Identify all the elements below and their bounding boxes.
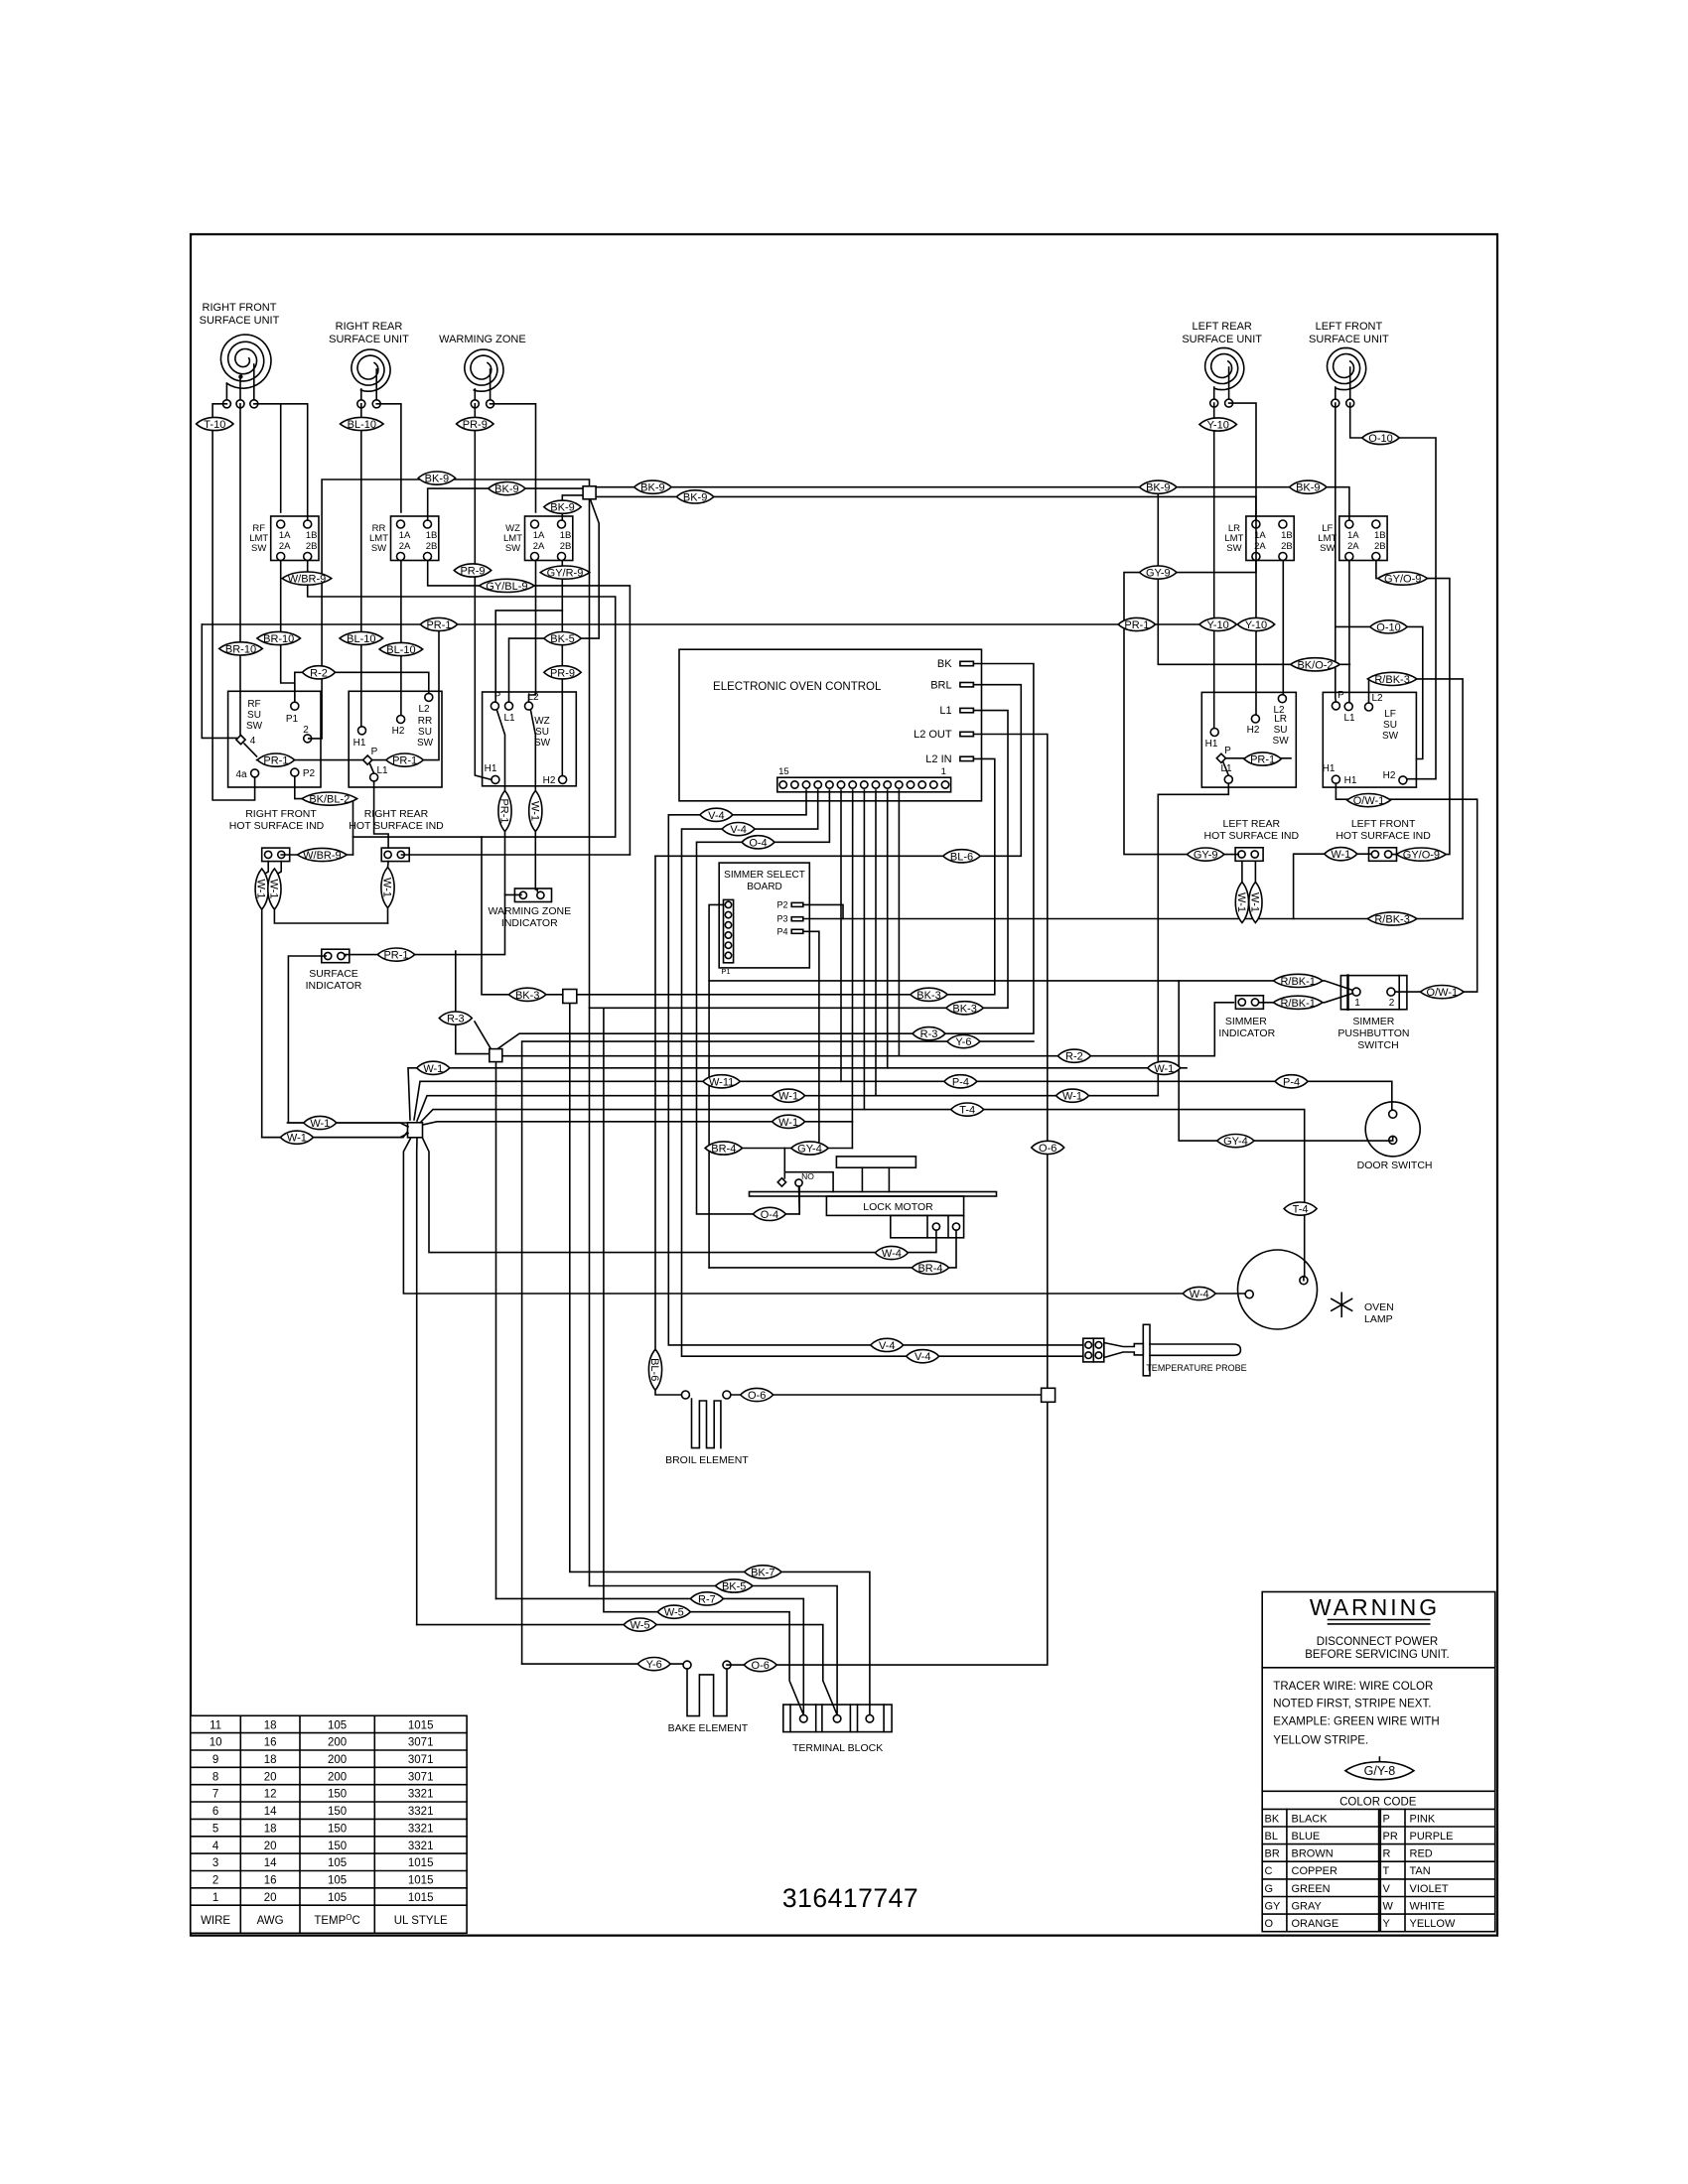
svg-text:SIMMER: SIMMER xyxy=(1225,1016,1267,1027)
label oval W-1 xyxy=(1235,883,1249,923)
limit switch LR LMT SW xyxy=(1246,516,1294,561)
wire pin7 xyxy=(875,790,877,1096)
svg-text:PINK: PINK xyxy=(1410,1813,1436,1825)
wire PR-1 bus drop to switch 4 xyxy=(202,624,236,738)
svg-text:1015: 1015 xyxy=(408,1857,434,1869)
wire LF coil right to O-10 run xyxy=(1350,403,1436,779)
label oval R/BK-1 xyxy=(1273,974,1323,988)
svg-text:105: 105 xyxy=(328,1857,347,1869)
svg-text:2B: 2B xyxy=(306,541,318,552)
svg-text:W-1: W-1 xyxy=(528,801,540,821)
svg-text:NO: NO xyxy=(801,1171,814,1181)
svg-text:R/BK-1: R/BK-1 xyxy=(1280,976,1315,988)
wire RF conn right down W-1 xyxy=(274,862,387,923)
svg-text:BLACK: BLACK xyxy=(1292,1813,1329,1825)
label oval P-4 xyxy=(944,1075,977,1089)
svg-text:BK-5: BK-5 xyxy=(722,1581,746,1593)
svg-text:COLOR CODE: COLOR CODE xyxy=(1339,1797,1417,1809)
svg-text:GY-9: GY-9 xyxy=(1146,568,1171,580)
label oval W-1 xyxy=(773,1089,805,1103)
svg-text:PR-1: PR-1 xyxy=(263,755,288,767)
wire WZ indicator left tap xyxy=(505,893,521,895)
wire pin12 V-4 xyxy=(682,790,1083,1356)
label oval PR-1 xyxy=(377,948,414,962)
svg-text:GY-9: GY-9 xyxy=(1194,850,1218,862)
wire BK-3 second line xyxy=(590,711,1009,1009)
svg-text:H2: H2 xyxy=(1247,725,1260,736)
wire LR conn W-1 ovals down2 xyxy=(1254,861,1256,918)
label oval BK-7 xyxy=(745,1566,781,1579)
svg-text:SW: SW xyxy=(1382,731,1399,742)
svg-text:W-11: W-11 xyxy=(709,1076,734,1088)
svg-text:3071: 3071 xyxy=(408,1754,434,1766)
svg-text:BLUE: BLUE xyxy=(1292,1831,1321,1843)
label oval BK-9 xyxy=(676,490,713,504)
label oval GY-4 xyxy=(1217,1135,1254,1149)
label oval W-1 xyxy=(280,1131,313,1145)
svg-text:2A: 2A xyxy=(279,541,291,552)
svg-text:W-1: W-1 xyxy=(1331,849,1350,861)
svg-text:H2: H2 xyxy=(1383,770,1396,781)
svg-text:105: 105 xyxy=(328,1892,347,1904)
svg-text:7: 7 xyxy=(212,1789,218,1801)
wire RR LMT 2B GY/BL-9 chain xyxy=(428,561,631,856)
label oval GY-9 xyxy=(1188,848,1224,862)
svg-text:316417747: 316417747 xyxy=(782,1883,918,1913)
svg-text:2B: 2B xyxy=(1281,541,1293,552)
wire RF coil left to T-10 run xyxy=(212,404,255,800)
label oval BL-10 xyxy=(341,417,384,431)
svg-text:200: 200 xyxy=(328,1754,347,1766)
svg-text:3071: 3071 xyxy=(408,1737,434,1749)
svg-text:LF: LF xyxy=(1384,709,1396,720)
svg-text:20: 20 xyxy=(264,1841,277,1852)
wire R/BK-3 from L2 xyxy=(1369,679,1464,919)
svg-text:H1: H1 xyxy=(485,763,497,774)
board SIMMER SELECT BOARD xyxy=(719,863,809,968)
svg-text:O/W-1: O/W-1 xyxy=(1353,795,1385,807)
wire BK/O-2 run to L1 xyxy=(1158,487,1349,665)
svg-text:V-4: V-4 xyxy=(879,1340,896,1352)
wire lamp W-4 feed xyxy=(1244,1293,1246,1296)
svg-text:R/BK-3: R/BK-3 xyxy=(1374,674,1409,686)
svg-text:14: 14 xyxy=(264,1857,277,1869)
svg-text:BK-5: BK-5 xyxy=(550,633,574,645)
label oval O-4 xyxy=(753,1207,785,1221)
wire P3 long R/BK-3 xyxy=(803,918,1463,920)
svg-text:O-6: O-6 xyxy=(1039,1143,1056,1155)
svg-text:1: 1 xyxy=(212,1892,218,1904)
svg-text:SW: SW xyxy=(1273,736,1290,747)
label oval O-4 xyxy=(742,836,774,850)
label oval Y-6 xyxy=(637,1658,670,1672)
label oval BK-9 xyxy=(1140,480,1177,494)
svg-text:8: 8 xyxy=(212,1771,218,1783)
svg-text:T: T xyxy=(1383,1865,1390,1877)
svg-text:LEFT FRONT: LEFT FRONT xyxy=(1351,818,1416,830)
wire W-1 to LF conn xyxy=(1294,854,1370,918)
svg-text:1015: 1015 xyxy=(408,1892,434,1904)
wire LF LMT 2A to L1 xyxy=(1348,561,1350,703)
svg-text:P2: P2 xyxy=(303,768,316,779)
svg-text:4: 4 xyxy=(250,736,256,747)
label oval W/BR-9 xyxy=(282,572,332,586)
svg-text:YELLOW STRIPE.: YELLOW STRIPE. xyxy=(1273,1735,1368,1747)
svg-text:PR-1: PR-1 xyxy=(1250,754,1275,766)
svg-text:V: V xyxy=(1383,1883,1391,1895)
wire R/BK-1 line xyxy=(709,981,1352,991)
svg-text:SW: SW xyxy=(1320,543,1335,554)
svg-text:1B: 1B xyxy=(1374,530,1386,541)
wire PR-1 switch bus xyxy=(257,759,364,761)
wire LF LMT 2B to GY/O-9 run xyxy=(1376,561,1450,855)
label oval GY/O-9 xyxy=(1397,848,1447,862)
wire L2 OUT down xyxy=(973,735,1047,1389)
label oval GY-9 xyxy=(1140,566,1177,580)
label oval T-4 xyxy=(951,1103,984,1117)
limit switch RR LMT SW xyxy=(391,516,439,561)
wire RF LMT 2B W/BR-9 chain xyxy=(308,561,616,856)
svg-text:10: 10 xyxy=(210,1737,222,1749)
svg-text:P: P xyxy=(1224,746,1231,756)
label oval T-10 xyxy=(197,417,233,431)
label oval R-2 xyxy=(303,666,336,680)
svg-text:PR-9: PR-9 xyxy=(460,566,485,578)
svg-text:2B: 2B xyxy=(426,541,438,552)
label oval O/W-1 xyxy=(1421,986,1465,1000)
svg-text:LAMP: LAMP xyxy=(1364,1313,1393,1325)
switch lock motor NO contact xyxy=(785,1172,834,1192)
svg-text:P4: P4 xyxy=(776,926,787,936)
wire BL-6 down to broil xyxy=(655,856,681,1395)
svg-text:EXAMPLE: GREEN WIRE WITH: EXAMPLE: GREEN WIRE WITH xyxy=(1273,1716,1439,1728)
svg-text:150: 150 xyxy=(328,1823,347,1835)
wire fan W-1 mid xyxy=(417,1096,1158,1121)
svg-text:PUSHBUTTON: PUSHBUTTON xyxy=(1337,1027,1409,1039)
wire L2 OUT below junction xyxy=(727,1402,1048,1665)
svg-text:SU: SU xyxy=(247,710,261,721)
svg-text:H2: H2 xyxy=(543,775,556,786)
svg-text:105: 105 xyxy=(328,1719,347,1731)
svg-text:W-1: W-1 xyxy=(255,880,267,899)
svg-text:W/BR-9: W/BR-9 xyxy=(288,574,327,586)
wire surface ind left down xyxy=(288,956,407,1123)
svg-text:SIMMER SELECT: SIMMER SELECT xyxy=(724,870,805,881)
svg-text:SIMMER: SIMMER xyxy=(1352,1016,1394,1027)
svg-text:3071: 3071 xyxy=(408,1771,434,1783)
label oval BR-4 xyxy=(705,1142,742,1156)
label oval R-3 xyxy=(439,1012,472,1025)
label oval GY/BL-9 xyxy=(480,579,535,593)
svg-text:P1: P1 xyxy=(721,967,730,976)
svg-text:PR-9: PR-9 xyxy=(550,667,575,679)
svg-text:O-4: O-4 xyxy=(749,837,767,849)
label oval BK-9 xyxy=(1290,480,1327,494)
junction BK-3 node xyxy=(563,990,577,1004)
wire O/W-1 from LF H1 xyxy=(1336,783,1477,992)
wire WZ LMT 2A to L2 xyxy=(529,561,536,703)
svg-text:RF: RF xyxy=(247,699,260,710)
wire GY-4 riser xyxy=(851,1122,853,1149)
svg-text:P: P xyxy=(1383,1813,1390,1825)
svg-text:W-1: W-1 xyxy=(267,880,279,899)
svg-text:R/BK-1: R/BK-1 xyxy=(1280,998,1315,1010)
svg-text:BROWN: BROWN xyxy=(1292,1848,1334,1860)
label oval O-6 xyxy=(741,1388,774,1402)
label oval O-10 xyxy=(1362,431,1399,445)
label oval W-5 xyxy=(624,1618,656,1632)
svg-text:SURFACE: SURFACE xyxy=(309,968,358,980)
svg-text:W-1: W-1 xyxy=(1062,1091,1082,1103)
svg-text:BK-9: BK-9 xyxy=(1146,482,1170,494)
svg-text:14: 14 xyxy=(264,1806,277,1818)
svg-text:11: 11 xyxy=(210,1719,221,1731)
svg-text:BK/O-2: BK/O-2 xyxy=(1297,659,1333,671)
svg-text:C: C xyxy=(1265,1865,1273,1877)
label oval G/Y-8 example xyxy=(1378,1757,1380,1762)
label oval BL-6 xyxy=(648,1349,662,1390)
label oval W-1 xyxy=(773,1115,805,1129)
svg-text:TRACER WIRE: WIRE COLOR: TRACER WIRE: WIRE COLOR xyxy=(1273,1681,1433,1693)
label oval GY/O-9 xyxy=(1378,572,1428,586)
svg-text:P-4: P-4 xyxy=(1283,1076,1300,1088)
label oval O/W-1 xyxy=(1347,794,1391,808)
svg-text:SWITCH: SWITCH xyxy=(1357,1039,1398,1051)
svg-text:BK: BK xyxy=(937,658,952,670)
svg-text:R-3: R-3 xyxy=(920,1028,938,1040)
svg-text:2B: 2B xyxy=(560,541,572,552)
wire BK-9 bus right xyxy=(596,487,1349,520)
svg-text:BL-6: BL-6 xyxy=(950,851,973,863)
svg-text:150: 150 xyxy=(328,1841,347,1852)
svg-text:P3: P3 xyxy=(776,914,787,924)
svg-text:V-4: V-4 xyxy=(730,824,747,836)
label oval BK-3 xyxy=(946,1002,983,1016)
svg-text:105: 105 xyxy=(328,1875,347,1887)
label oval W/BR-9 xyxy=(298,848,348,862)
svg-text:150: 150 xyxy=(328,1789,347,1801)
wire BK-5 bottom xyxy=(590,1586,838,1715)
wire BK-9 lower branch to LR LMT 1A xyxy=(596,496,1256,520)
label oval PR-9 xyxy=(544,666,581,680)
svg-text:2B: 2B xyxy=(1374,541,1386,552)
label oval W-1 xyxy=(1248,883,1262,923)
wire RF conn left down W-1 xyxy=(262,862,408,1138)
label oval O-6 xyxy=(1032,1141,1064,1155)
svg-text:R-2: R-2 xyxy=(1065,1051,1083,1063)
svg-text:W: W xyxy=(1383,1901,1394,1913)
wire P-4 to door top xyxy=(1392,1109,1394,1111)
svg-text:V-4: V-4 xyxy=(914,1351,931,1363)
lamp OVEN LAMP xyxy=(1238,1250,1318,1329)
svg-text:HOT SURFACE IND: HOT SURFACE IND xyxy=(1336,830,1431,842)
motor LOCK MOTOR xyxy=(836,1157,915,1167)
svg-text:P2: P2 xyxy=(776,899,787,909)
svg-text:OVEN: OVEN xyxy=(1364,1301,1394,1313)
table wire gauge xyxy=(191,1715,467,1933)
svg-text:H1: H1 xyxy=(1205,739,1218,750)
svg-text:SURFACE UNIT: SURFACE UNIT xyxy=(200,315,280,327)
svg-text:LEFT FRONT: LEFT FRONT xyxy=(1316,321,1383,333)
wire junction down BK-5 harness xyxy=(589,499,591,1586)
label oval BL-6 xyxy=(943,850,980,864)
svg-text:20: 20 xyxy=(264,1892,277,1904)
svg-text:AWG: AWG xyxy=(257,1915,284,1927)
svg-text:SW: SW xyxy=(534,738,551,749)
label oval BR-4 xyxy=(912,1261,948,1275)
wire pin5 xyxy=(898,790,900,1056)
label oval W-1 xyxy=(255,869,269,909)
svg-text:P: P xyxy=(371,747,378,757)
wire fan W-1 upper xyxy=(408,1068,1187,1120)
wire R-3 into junction xyxy=(456,951,490,1054)
svg-text:1: 1 xyxy=(941,766,946,777)
junction O-6 node xyxy=(1042,1388,1055,1402)
svg-text:1A: 1A xyxy=(279,530,291,541)
svg-text:3321: 3321 xyxy=(408,1841,434,1852)
wire LR LMT 2A to GY-9 run xyxy=(1124,561,1256,855)
svg-text:150: 150 xyxy=(328,1806,347,1818)
svg-text:WZ: WZ xyxy=(534,716,550,727)
svg-text:3321: 3321 xyxy=(408,1789,434,1801)
label oval BK/BL-2 xyxy=(302,792,357,806)
svg-text:W-1: W-1 xyxy=(778,1091,798,1103)
svg-text:2: 2 xyxy=(1389,998,1395,1009)
wire LR PR-1 stub xyxy=(1225,757,1291,759)
svg-text:Y-10: Y-10 xyxy=(1206,619,1228,631)
svg-text:BK-9: BK-9 xyxy=(1296,482,1320,494)
svg-text:20: 20 xyxy=(264,1771,277,1783)
svg-text:BK: BK xyxy=(1265,1813,1280,1825)
label oval W-11 xyxy=(703,1075,740,1089)
wire Y-6 to bake xyxy=(522,1663,683,1665)
svg-text:W/BR-9: W/BR-9 xyxy=(303,850,342,862)
svg-text:Y-10: Y-10 xyxy=(1207,420,1229,432)
wire RR conn left down W-1 xyxy=(387,862,390,923)
svg-text:L1: L1 xyxy=(1343,713,1355,724)
wire LR L1 to W-1 line xyxy=(1158,783,1228,1095)
label oval BK-3 xyxy=(509,988,546,1002)
switch LF SU SW xyxy=(1323,692,1416,787)
svg-text:Y-6: Y-6 xyxy=(646,1659,662,1671)
wire LR conn W-1 ovals down xyxy=(1241,861,1243,918)
svg-text:W-1: W-1 xyxy=(1235,892,1247,912)
label oval R/BK-3 xyxy=(1367,912,1417,926)
label oval PR-1 xyxy=(1118,617,1155,631)
wire pin6 xyxy=(887,790,889,1068)
svg-text:2: 2 xyxy=(303,725,309,736)
svg-text:200: 200 xyxy=(328,1737,347,1749)
svg-text:6: 6 xyxy=(212,1806,218,1818)
svg-text:PR-1: PR-1 xyxy=(1124,619,1149,631)
svg-text:PR: PR xyxy=(1383,1831,1398,1843)
connector strip P1 pins 1-15 xyxy=(777,777,951,792)
label oval V-4 xyxy=(907,1350,939,1364)
svg-text:GRAY: GRAY xyxy=(1292,1901,1323,1913)
svg-text:SW: SW xyxy=(1226,543,1241,554)
svg-text:1: 1 xyxy=(1354,998,1360,1009)
svg-text:GY/R-9: GY/R-9 xyxy=(547,568,584,580)
svg-text:RR: RR xyxy=(418,716,432,727)
wire GY-4 door line xyxy=(1179,981,1393,1141)
wire pin8 xyxy=(863,790,865,1110)
wire lamp top T-4 xyxy=(1303,1277,1305,1281)
label oval PR-9 xyxy=(454,564,491,578)
svg-text:1B: 1B xyxy=(306,530,318,541)
svg-text:BL-10: BL-10 xyxy=(386,644,415,656)
label oval W-1 xyxy=(267,869,281,909)
svg-text:BK-9: BK-9 xyxy=(550,502,574,514)
wire P2 right xyxy=(803,904,843,918)
label oval R/BK-3 xyxy=(1367,672,1417,686)
label oval BK-9 xyxy=(544,500,581,514)
wire RF LMT 1A drop xyxy=(280,404,282,512)
svg-text:16: 16 xyxy=(264,1875,277,1887)
wire R-2 line xyxy=(502,1003,1234,1056)
wire RF terminal 2 to BK-9 bus xyxy=(309,479,590,739)
svg-text:T-4: T-4 xyxy=(1293,1204,1309,1216)
svg-text:O-6: O-6 xyxy=(748,1390,766,1402)
wire fan T-4 line xyxy=(420,1110,1305,1277)
switch DOOR SWITCH xyxy=(1365,1102,1420,1157)
wire P4 down xyxy=(803,931,819,1148)
svg-text:O: O xyxy=(1265,1918,1274,1930)
svg-text:3321: 3321 xyxy=(408,1806,434,1818)
svg-text:R-2: R-2 xyxy=(310,667,328,679)
svg-text:R-7: R-7 xyxy=(698,1593,716,1605)
controller ELECTRONIC OVEN CONTROL xyxy=(679,649,982,801)
svg-text:BROIL ELEMENT: BROIL ELEMENT xyxy=(665,1454,749,1466)
label oval O-10 xyxy=(1370,620,1407,634)
junction central W-1 node xyxy=(408,1123,423,1138)
svg-text:INDICATOR: INDICATOR xyxy=(1218,1027,1275,1039)
svg-text:W-1: W-1 xyxy=(310,1118,330,1130)
svg-text:O-10: O-10 xyxy=(1368,433,1392,445)
svg-text:SU: SU xyxy=(535,727,549,738)
svg-text:BOARD: BOARD xyxy=(747,882,782,892)
label oval Y-6 xyxy=(947,1035,980,1049)
svg-text:P: P xyxy=(1337,690,1344,701)
svg-text:2: 2 xyxy=(212,1875,218,1887)
svg-text:H2: H2 xyxy=(392,726,405,737)
svg-text:TAN: TAN xyxy=(1410,1865,1431,1877)
svg-text:SW: SW xyxy=(246,721,263,732)
wire pin10 xyxy=(840,790,842,1081)
wire W-5 bottom xyxy=(604,1008,803,1714)
svg-text:L2 IN: L2 IN xyxy=(925,753,951,765)
svg-text:LOCK MOTOR: LOCK MOTOR xyxy=(863,1201,933,1213)
svg-text:L2: L2 xyxy=(1273,705,1285,716)
svg-text:1015: 1015 xyxy=(408,1875,434,1887)
svg-text:G: G xyxy=(1265,1883,1274,1895)
label oval T-4 xyxy=(1284,1202,1317,1216)
svg-text:W-1: W-1 xyxy=(287,1133,307,1145)
wire RR LMT 2A to H2 xyxy=(400,561,402,716)
svg-text:BK/BL-2: BK/BL-2 xyxy=(309,794,350,806)
label oval BL-10 xyxy=(340,631,383,645)
svg-text:W-1: W-1 xyxy=(1154,1063,1174,1075)
svg-text:SW: SW xyxy=(251,543,266,554)
svg-text:LEFT REAR: LEFT REAR xyxy=(1193,321,1252,333)
wire R-2 RF P1 to RR L2 xyxy=(295,672,429,702)
svg-text:18: 18 xyxy=(264,1823,277,1835)
label oval R-3 xyxy=(913,1027,945,1041)
wire junction2 down R-7 xyxy=(495,1062,497,1599)
svg-text:DOOR SWITCH: DOOR SWITCH xyxy=(1357,1160,1433,1171)
svg-text:COPPER: COPPER xyxy=(1292,1865,1338,1877)
wire fan W-1 low xyxy=(423,1122,853,1125)
wire pin11 O-4 xyxy=(697,790,830,1214)
